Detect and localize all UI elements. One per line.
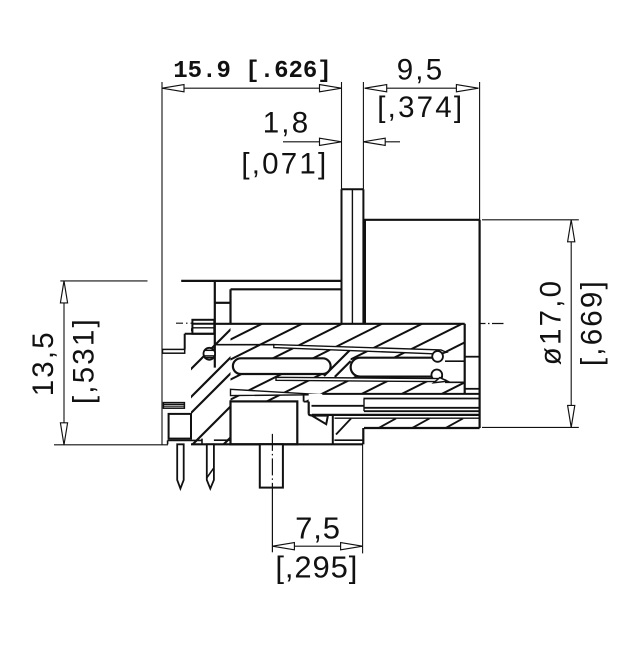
centerline left — [176, 322, 192, 324]
svg-text:[,669]: [,669] — [576, 279, 609, 366]
hatch main section 26deg — [100, 115, 640, 645]
contact tip lower blob — [431, 370, 442, 381]
svg-text:15.9 [.626]: 15.9 [.626] — [173, 58, 331, 85]
lower barb — [434, 378, 448, 383]
svg-text:[,295]: [,295] — [275, 549, 358, 584]
body top edge — [181, 280, 341, 282]
hatch strip between contacts 45deg — [324, 346, 353, 377]
centerline right — [481, 323, 504, 325]
svg-text:[,531]: [,531] — [68, 317, 101, 404]
svg-text:ø17,0: ø17,0 — [535, 279, 568, 365]
section bottom edge — [191, 443, 363, 445]
pcb pin 2 — [207, 444, 214, 488]
dimension 13.5 extension lines — [60, 280, 147, 282]
hatch right edge — [464, 324, 466, 394]
dimension 15.9 line — [162, 85, 342, 92]
svg-text:[,071]: [,071] — [241, 148, 328, 181]
rear shell step lines right — [312, 394, 480, 428]
rear lower box — [333, 415, 364, 444]
dimension 9.5 line — [365, 85, 479, 92]
rear insulator block — [304, 394, 335, 424]
svg-text:13,5: 13,5 — [27, 330, 60, 396]
square pin — [260, 444, 283, 487]
svg-text:9,5: 9,5 — [397, 53, 445, 86]
dimension 7.5 extension right — [362, 443, 364, 553]
dimension 9.5 extension lines — [479, 82, 481, 220]
contact tip upper — [432, 351, 443, 362]
terminal block top — [185, 320, 215, 350]
dimension 15.9 extension left — [161, 82, 163, 445]
svg-text:[,374]: [,374] — [377, 91, 464, 124]
lower wedge slit — [231, 389, 323, 395]
contact pill 2 open right end — [351, 358, 443, 377]
square pin centerline — [271, 434, 273, 489]
dimension 1.8 arrow left — [283, 138, 342, 145]
thin band hatch — [336, 418, 463, 434]
solder lug bar lower stripes — [163, 403, 184, 409]
contact slit upper — [274, 345, 447, 354]
dimension dia17 line — [568, 220, 575, 428]
lower cavity — [231, 401, 298, 444]
solder lug bar upper — [163, 349, 185, 353]
dimension 7.5 line — [272, 543, 362, 550]
body step notch — [215, 281, 342, 368]
contact pill 1 — [233, 358, 331, 374]
dimension 15.9 extension right — [341, 82, 343, 189]
lower left box — [168, 414, 232, 444]
hatch top edge — [214, 323, 465, 325]
flange — [363, 220, 479, 428]
dimension dia17 extension lines — [482, 219, 579, 221]
dimension 13.5 line — [60, 281, 67, 445]
bore lines in strip — [465, 356, 480, 358]
solder cup circle — [204, 348, 216, 360]
hatch left column 45deg — [150, 241, 280, 518]
dimension 1.8 arrow right — [363, 138, 400, 145]
svg-text:7,5: 7,5 — [295, 510, 341, 545]
insert shoulder line — [216, 344, 273, 346]
contact slit lower — [276, 377, 446, 381]
white pocket right of contact tips — [443, 361, 465, 382]
pcb pin 1 — [177, 444, 184, 488]
blade tab — [342, 189, 364, 324]
svg-text:1,8: 1,8 — [263, 106, 311, 139]
